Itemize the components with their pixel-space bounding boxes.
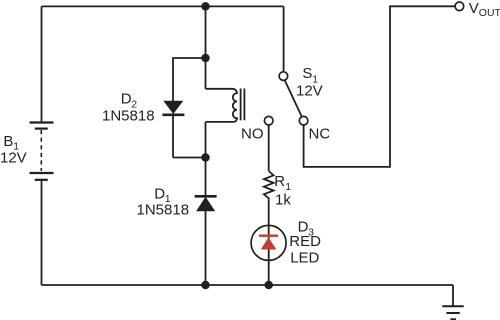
wire NO contact to resistor R1 — [268, 125, 270, 171]
junction node bottom rail at D1 — [201, 281, 210, 290]
ground symbol — [442, 306, 463, 319]
junction node relay bottom — [201, 153, 210, 162]
svg-text:NC: NC — [309, 126, 331, 143]
svg-text:1N5818: 1N5818 — [102, 107, 155, 124]
terminal VOUT — [455, 2, 464, 11]
switch S1 NC contact terminal — [299, 116, 308, 125]
battery B1 — [30, 123, 54, 180]
svg-text:NO: NO — [241, 126, 264, 143]
relay coil K1 — [206, 58, 245, 158]
svg-text:12V: 12V — [0, 150, 27, 167]
svg-text:VOUT: VOUT — [469, 0, 500, 19]
LED D3 red symbol — [259, 235, 278, 250]
wire relay node to D1 — [205, 158, 207, 196]
wire D2 branch bottom (D2 cathode to node) — [173, 157, 206, 159]
wire switch feed (top rail corner down to S1 pole) — [283, 6, 285, 71]
switch S1 NO contact terminal — [264, 116, 273, 125]
diode D2 (1N5818) — [162, 101, 184, 157]
svg-text:1N5818: 1N5818 — [137, 202, 190, 219]
wire left rail top (to battery B1) — [41, 6, 43, 122]
wire ground drop — [452, 285, 454, 306]
LED D3 circle — [251, 225, 286, 260]
wire from top rail down to relay/D2 node — [205, 6, 207, 58]
resistor R1 — [264, 171, 274, 200]
svg-text:R1: R1 — [274, 173, 291, 193]
svg-text:RED: RED — [289, 233, 321, 250]
relay core lines — [240, 89, 242, 121]
diode D1 (1N5818) — [195, 196, 217, 211]
wire bottom rail (ground rail) — [42, 284, 454, 286]
wire NC contact to VOUT rail — [304, 6, 455, 167]
wire through LED — [268, 225, 270, 285]
svg-text:12V: 12V — [296, 82, 323, 99]
wire D2 branch top (node to D2 anode) — [173, 58, 206, 101]
wire top rail (battery + to switch) — [42, 5, 284, 7]
svg-text:1k: 1k — [275, 191, 291, 208]
switch S1 arm — [285, 80, 302, 116]
junction node top rail — [201, 2, 210, 11]
svg-text:LED: LED — [290, 249, 319, 266]
junction node bottom rail at LED — [264, 281, 273, 290]
wire R1 to LED D3 — [268, 200, 270, 226]
wire left rail bottom (battery - to bottom rail) — [41, 181, 43, 286]
junction node relay top — [201, 54, 210, 63]
switch S1 pole terminal — [279, 72, 288, 81]
wire D1 anode to bottom rail — [205, 211, 207, 285]
